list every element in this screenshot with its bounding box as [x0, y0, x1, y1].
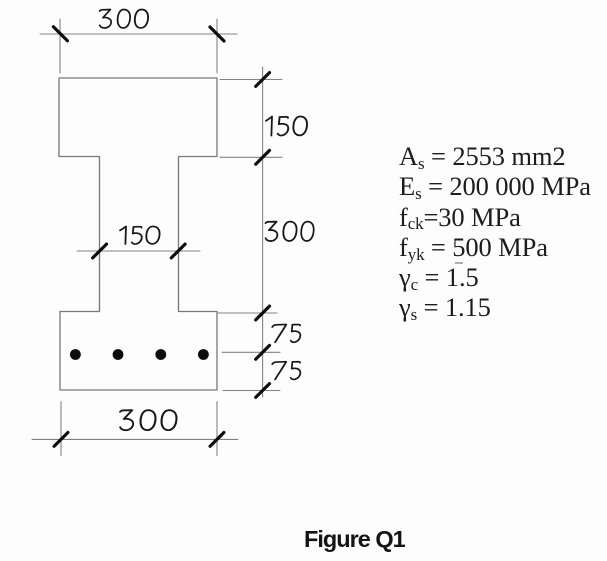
top dimension tick left [53, 27, 67, 41]
scan artifact dash [452, 260, 472, 266]
figure caption [304, 524, 405, 555]
top dimension label 300 [100, 10, 148, 28]
right chain label 75 lower [272, 362, 300, 380]
right chain tick 3 [256, 306, 270, 320]
right chain extension line bottom [223, 390, 280, 392]
right chain label 300 [265, 222, 313, 241]
top dimension line [40, 33, 237, 35]
material properties text block [399, 141, 591, 323]
web dimension tick right [171, 244, 185, 258]
right chain dimension line vertical [262, 67, 264, 397]
right chain extension line bottom flange top [218, 312, 277, 314]
bottom dimension tick right [210, 433, 224, 447]
right chain extension line flange top [220, 79, 282, 81]
web dimension label 150 [120, 226, 160, 244]
bottom dimension line [32, 438, 238, 440]
right chain label 150 [266, 116, 307, 135]
rebar bar 3 [155, 349, 166, 360]
top dimension extension line left [59, 19, 61, 73]
rebar bar 4 [198, 349, 209, 360]
right chain tick 1 [256, 73, 270, 87]
bottom dimension label 300 [120, 410, 176, 430]
bottom dimension tick left [54, 433, 68, 447]
right chain extension line rebar level [222, 351, 280, 353]
right chain extension line flange bottom [220, 156, 282, 158]
bottom dimension extension line right [216, 402, 218, 456]
right chain tick 4 [256, 345, 270, 359]
rebar bar 2 [113, 349, 124, 360]
bottom dimension extension line left [60, 402, 62, 456]
top dimension tick right [210, 27, 224, 41]
web dimension line 150 [77, 250, 200, 252]
right chain label 75 upper [272, 324, 300, 342]
right chain tick 5 [256, 384, 270, 398]
rebar bar 1 [70, 349, 81, 360]
web dimension tick left [93, 244, 107, 258]
right chain tick 2 [256, 150, 270, 164]
beam cross-section outline [59, 78, 217, 390]
top dimension extension line right [216, 19, 218, 73]
